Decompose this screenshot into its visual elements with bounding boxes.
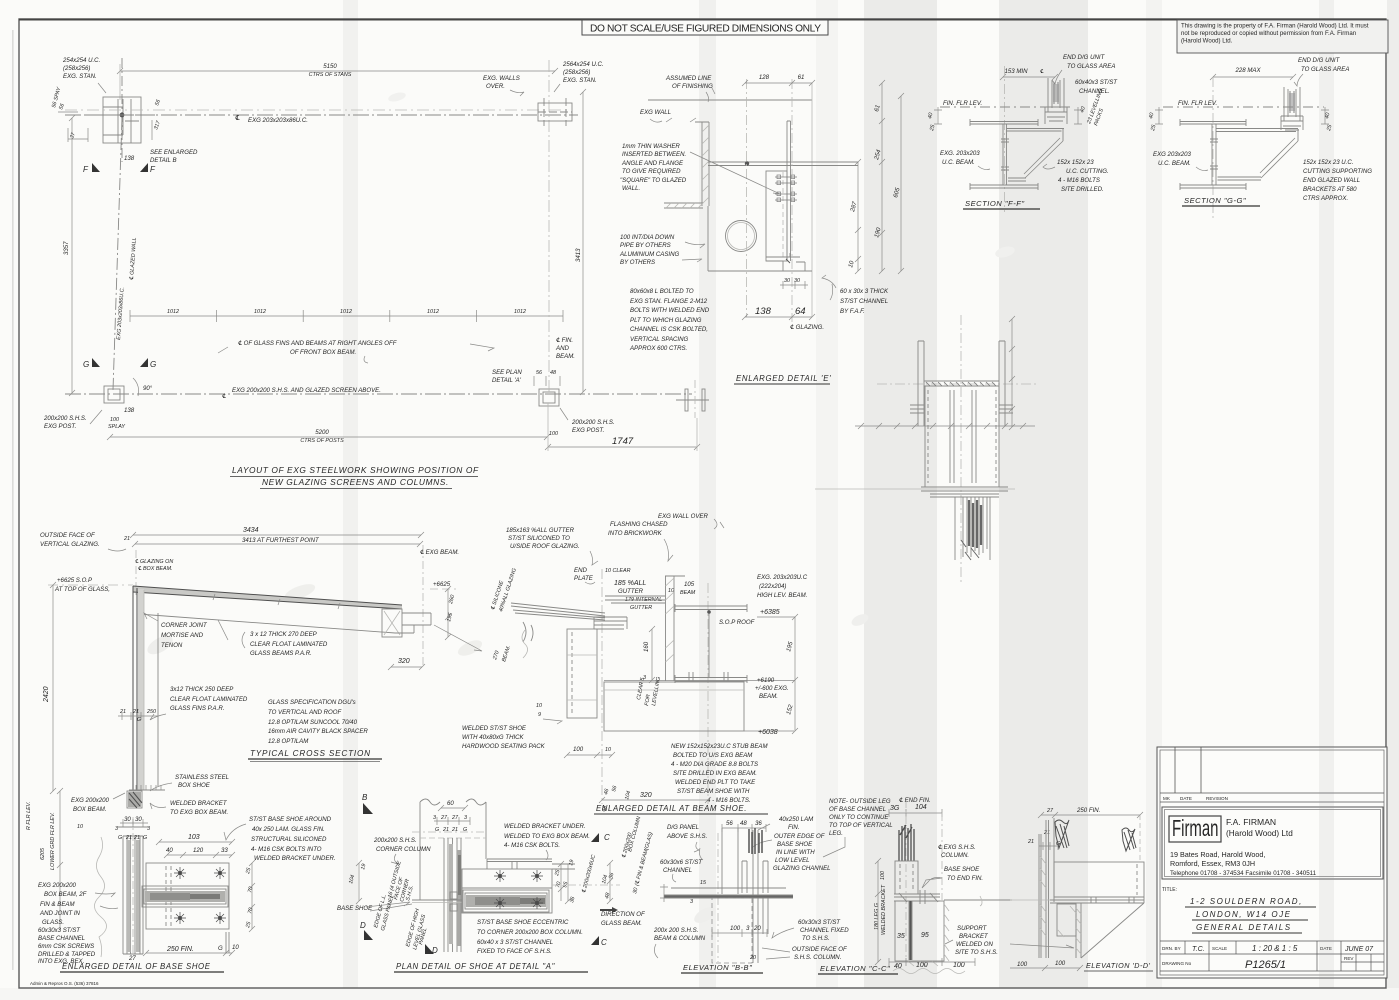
svg-text:21: 21	[1027, 839, 1034, 845]
svg-text:LOW LEVEL: LOW LEVEL	[775, 857, 810, 864]
svg-text:EXG. STAN.: EXG. STAN.	[563, 77, 597, 84]
svg-text:250 FIN.: 250 FIN.	[166, 946, 194, 953]
svg-text:℄ EXG S.H.S.: ℄ EXG S.H.S.	[938, 844, 976, 851]
svg-text:95: 95	[921, 932, 929, 939]
svg-text:10: 10	[77, 824, 83, 830]
svg-text:5200: 5200	[315, 429, 329, 436]
svg-text:SCALE: SCALE	[1212, 946, 1227, 951]
svg-text:100: 100	[573, 746, 584, 753]
svg-text:℄ BOX BEAM.: ℄ BOX BEAM.	[138, 566, 173, 572]
svg-text:20: 20	[749, 955, 756, 961]
svg-text:80x60x8 L BOLTED TO: 80x60x8 L BOLTED TO	[630, 288, 694, 295]
svg-text:ALUMINIUM CASING: ALUMINIUM CASING	[619, 251, 680, 258]
svg-text:AT TOP OF GLASS,: AT TOP OF GLASS,	[54, 586, 110, 593]
svg-text:SEE ENLARGED: SEE ENLARGED	[150, 149, 198, 156]
svg-text:CTRS APPROX.: CTRS APPROX.	[1303, 195, 1348, 202]
svg-text:+6190: +6190	[757, 677, 775, 684]
svg-text:100: 100	[916, 962, 928, 969]
svg-text:1012: 1012	[427, 309, 439, 315]
svg-text:SPLAY: SPLAY	[108, 424, 125, 430]
svg-text:ELEVATION 'D-D': ELEVATION 'D-D'	[1086, 961, 1151, 970]
svg-text:3x12 THICK 250 DEEP: 3x12 THICK 250 DEEP	[170, 686, 234, 693]
svg-text:VERTICAL SPACING: VERTICAL SPACING	[630, 336, 689, 343]
svg-text:152x 152x 23 U.C.: 152x 152x 23 U.C.	[1303, 159, 1353, 166]
svg-text:4 - M20 DIA GRADE 8.8 BOLTS: 4 - M20 DIA GRADE 8.8 BOLTS	[671, 761, 758, 768]
svg-text:WITH 40x80xG THICK: WITH 40x80xG THICK	[462, 734, 525, 741]
svg-text:10: 10	[536, 703, 542, 709]
svg-text:2564x254 U.C.: 2564x254 U.C.	[562, 61, 604, 68]
svg-text:PLAN DETAIL OF SHOE AT DE: PLAN DETAIL OF SHOE AT DETAIL "A"	[396, 962, 556, 971]
svg-text:3: 3	[433, 815, 436, 821]
svg-text:40x 250 LAM. GLASS FIN.: 40x 250 LAM. GLASS FIN.	[252, 826, 325, 833]
svg-text:GLASS SPECIFICATION DGU's: GLASS SPECIFICATION DGU's	[268, 699, 356, 706]
svg-text:DIRECTION OF: DIRECTION OF	[601, 911, 646, 918]
svg-text:+6625 S.O.P: +6625 S.O.P	[57, 577, 93, 584]
svg-text:3: 3	[147, 826, 150, 832]
svg-text:PLATE: PLATE	[574, 575, 594, 582]
svg-text:U.C. CUTTING.: U.C. CUTTING.	[1066, 168, 1109, 175]
svg-text:COLUMN.: COLUMN.	[941, 852, 969, 859]
svg-text:WELDED BRACKET: WELDED BRACKET	[170, 800, 228, 807]
svg-text:2420: 2420	[43, 686, 50, 703]
svg-text:BOLTED TO U/S EXG BEAM: BOLTED TO U/S EXG BEAM	[673, 752, 753, 759]
svg-text:CHANNEL IS CSK BOLTED,: CHANNEL IS CSK BOLTED,	[630, 326, 708, 333]
svg-text:LONDON, W14 OJE: LONDON, W14 OJE	[1196, 910, 1291, 919]
svg-text:℄: ℄	[1040, 69, 1044, 75]
svg-text:ANGLE AND FLANGE: ANGLE AND FLANGE	[621, 160, 684, 167]
svg-text:60: 60	[447, 800, 454, 807]
svg-text:CHANNEL FIXED: CHANNEL FIXED	[800, 927, 849, 934]
svg-text:27: 27	[1046, 808, 1054, 814]
svg-text:not be reproduced or copied wi: not be reproduced or copied without perm…	[1181, 30, 1356, 37]
svg-text:WELDED BRACKET: WELDED BRACKET	[881, 884, 887, 935]
svg-text:SITE DRILLED.: SITE DRILLED.	[1061, 186, 1104, 193]
svg-text:30: 30	[124, 816, 131, 823]
svg-text:100: 100	[880, 871, 886, 880]
svg-text:21: 21	[123, 536, 130, 542]
svg-text:TO EXG BOX BEAM.: TO EXG BOX BEAM.	[170, 809, 228, 816]
svg-text:60x30x6 ST/ST: 60x30x6 ST/ST	[660, 859, 703, 866]
svg-text:IN LINE WITH: IN LINE WITH	[776, 849, 815, 856]
svg-text:FLASHING CHASED: FLASHING CHASED	[610, 521, 668, 528]
svg-text:P1265/1: P1265/1	[1245, 959, 1286, 971]
svg-text:END: END	[574, 567, 587, 574]
svg-text:WELDED ON: WELDED ON	[956, 941, 994, 948]
svg-text:152x 152x 23: 152x 152x 23	[1057, 159, 1094, 166]
svg-text:OF FRONT BOX BEAM.: OF FRONT BOX BEAM.	[290, 349, 356, 356]
svg-text:TO VERTICAL AND ROOF: TO VERTICAL AND ROOF	[268, 709, 343, 716]
svg-text:12.8 OPTILAM: 12.8 OPTILAM	[268, 738, 309, 745]
svg-text:100: 100	[549, 431, 558, 437]
svg-text:GLASS.: GLASS.	[42, 919, 64, 926]
svg-text:138: 138	[124, 407, 135, 414]
svg-text:153 MIN: 153 MIN	[1004, 68, 1028, 75]
svg-text:21: 21	[442, 827, 449, 833]
svg-text:(Harold Wood) Ltd.: (Harold Wood) Ltd.	[1181, 38, 1233, 45]
svg-text:DETAIL B: DETAIL B	[150, 157, 177, 164]
svg-text:ABOVE S.H.S.: ABOVE S.H.S.	[666, 833, 707, 840]
svg-text:WELDED TO EXG BOX BEAM.: WELDED TO EXG BOX BEAM.	[504, 833, 590, 840]
svg-text:ELEVATION "B-B": ELEVATION "B-B"	[683, 963, 752, 972]
svg-text:1mm THIN WASHER: 1mm THIN WASHER	[622, 143, 680, 150]
svg-text:21: 21	[133, 835, 140, 841]
svg-text:MK: MK	[1163, 796, 1171, 801]
svg-text:BEAM: BEAM	[680, 590, 696, 596]
svg-text:S.O.P ROOF: S.O.P ROOF	[719, 619, 756, 626]
svg-text:C: C	[601, 938, 607, 947]
svg-text:60x40 x 3 ST/ST CHANNEL: 60x40 x 3 ST/ST CHANNEL	[477, 939, 553, 946]
svg-text:TO END FIN.: TO END FIN.	[947, 875, 983, 882]
svg-text:MORTISE AND: MORTISE AND	[161, 632, 204, 639]
svg-text:320: 320	[640, 792, 652, 799]
svg-text:WALL.: WALL.	[622, 185, 640, 192]
svg-text:APPROX 600 CTRS.: APPROX 600 CTRS.	[629, 345, 687, 352]
svg-text:FIXED TO FACE OF S.H.S.: FIXED TO FACE OF S.H.S.	[477, 948, 552, 955]
svg-text:TO TOP OF VERTICAL: TO TOP OF VERTICAL	[829, 822, 893, 829]
svg-text:33: 33	[221, 847, 228, 854]
svg-text:4 - M16 BOLTS.: 4 - M16 BOLTS.	[707, 797, 751, 804]
svg-text:BASE SHOE: BASE SHOE	[777, 841, 813, 848]
svg-text:ST/ST SILICONED TO: ST/ST SILICONED TO	[508, 535, 570, 542]
svg-text:ELEVATION "C-C": ELEVATION "C-C"	[820, 964, 890, 973]
svg-text:60 x 30x 3 THICK: 60 x 30x 3 THICK	[840, 288, 889, 295]
svg-text:TO GLASS AREA: TO GLASS AREA	[1067, 63, 1115, 70]
svg-text:DRILLED & TAPPED: DRILLED & TAPPED	[38, 951, 96, 958]
svg-text:21: 21	[132, 709, 139, 715]
svg-text:1 : 20 & 1 : 5: 1 : 20 & 1 : 5	[1252, 944, 1298, 953]
svg-text:℄: ℄	[222, 393, 226, 400]
svg-text:EXG POST.: EXG POST.	[44, 423, 76, 430]
svg-text:3G: 3G	[890, 805, 900, 812]
svg-text:BRACKETS AT 580: BRACKETS AT 580	[1303, 186, 1357, 193]
svg-text:64: 64	[795, 306, 806, 317]
svg-text:℄: ℄	[235, 114, 240, 122]
svg-text:EXG STAN. FLANGE 2-M12: EXG STAN. FLANGE 2-M12	[630, 298, 708, 305]
svg-text:+6385: +6385	[760, 609, 780, 616]
svg-text:ONLY TO CONTINUE: ONLY TO CONTINUE	[829, 814, 889, 821]
svg-text:FIN. FLR LEV.: FIN. FLR LEV.	[1178, 100, 1217, 107]
svg-text:SUPPORT: SUPPORT	[957, 925, 988, 932]
svg-text:128: 128	[759, 74, 770, 81]
svg-text:SECTION "F-F": SECTION "F-F"	[965, 199, 1025, 208]
svg-text:SEE PLAN: SEE PLAN	[492, 369, 522, 376]
svg-text:ST/ST CHANNEL: ST/ST CHANNEL	[840, 298, 888, 305]
svg-text:27: 27	[128, 955, 136, 962]
svg-text:BOLTS WITH WELDED END: BOLTS WITH WELDED END	[630, 307, 710, 314]
svg-text:1012: 1012	[514, 309, 526, 315]
svg-text:CLEAR FLOAT LAMINATED: CLEAR FLOAT LAMINATED	[170, 696, 248, 703]
svg-text:FIN. FLR LEV.: FIN. FLR LEV.	[943, 100, 982, 107]
svg-text:STAINLESS STEEL: STAINLESS STEEL	[175, 774, 229, 781]
svg-text:3 x 12 THICK 270 DEEP: 3 x 12 THICK 270 DEEP	[250, 631, 318, 638]
svg-text:100: 100	[1017, 961, 1028, 968]
svg-text:35: 35	[897, 933, 905, 940]
svg-text:DRN. BY: DRN. BY	[1162, 946, 1181, 951]
svg-text:STRUCTURAL SILICONED: STRUCTURAL SILICONED	[251, 836, 327, 843]
svg-text:HIGH LEV. BEAM.: HIGH LEV. BEAM.	[757, 592, 807, 599]
svg-text:GUTTER: GUTTER	[618, 588, 644, 595]
svg-text:℄ END FIN.: ℄ END FIN.	[899, 797, 931, 804]
svg-text:G: G	[150, 360, 156, 369]
svg-text:F.A. FIRMAN: F.A. FIRMAN	[1226, 817, 1276, 827]
svg-text:U.C. BEAM.: U.C. BEAM.	[942, 159, 975, 166]
svg-text:4- M16 CSK BOLTS.: 4- M16 CSK BOLTS.	[504, 842, 560, 849]
svg-text:SECTION "G-G": SECTION "G-G"	[1184, 196, 1246, 205]
svg-text:100 INT/DIA DOWN: 100 INT/DIA DOWN	[620, 234, 675, 241]
svg-text:1-2 SOULDERN ROAD,: 1-2 SOULDERN ROAD,	[1190, 897, 1303, 906]
svg-text:ST/ST BASE SHOE AROUND: ST/ST BASE SHOE AROUND	[249, 816, 332, 823]
svg-text:60x40x3 ST/ST: 60x40x3 ST/ST	[1075, 79, 1118, 86]
svg-text:3357: 3357	[63, 241, 70, 255]
svg-text:(Harold Wood) Ltd: (Harold Wood) Ltd	[1226, 829, 1293, 838]
svg-text:B: B	[362, 793, 368, 802]
svg-text:6205: 6205	[40, 847, 46, 860]
svg-text:10 CLEAR: 10 CLEAR	[605, 568, 631, 574]
svg-text:30: 30	[135, 816, 142, 823]
svg-text:ST/ST BASE SHOE ECCENTRIC: ST/ST BASE SHOE ECCENTRIC	[477, 919, 569, 926]
svg-text:OUTSIDE FACE OF: OUTSIDE FACE OF	[792, 946, 848, 953]
svg-text:21: 21	[119, 709, 126, 715]
svg-text:104: 104	[915, 804, 927, 811]
svg-text:"SQUARE" TO GLAZED: "SQUARE" TO GLAZED	[620, 177, 687, 184]
svg-text:48: 48	[550, 370, 556, 376]
svg-text:TO CORNER 200x200 BOX COLUMN.: TO CORNER 200x200 BOX COLUMN.	[477, 929, 583, 936]
svg-text:U.C. BEAM.: U.C. BEAM.	[1158, 160, 1191, 167]
svg-text:48: 48	[740, 820, 747, 827]
svg-text:FIN.: FIN.	[788, 824, 800, 831]
svg-text:D: D	[360, 921, 366, 930]
svg-text:103: 103	[188, 834, 200, 841]
svg-text:3: 3	[690, 899, 693, 905]
svg-text:D/G PANEL: D/G PANEL	[667, 824, 699, 831]
svg-text:250 FIN.: 250 FIN.	[1076, 807, 1100, 814]
svg-text:AND JOINT IN: AND JOINT IN	[39, 910, 81, 917]
svg-text:ENLARGED DETAIL AT BEAM SH: ENLARGED DETAIL AT BEAM SHOE.	[596, 804, 747, 813]
svg-text:U/SIDE ROOF GLAZING.: U/SIDE ROOF GLAZING.	[510, 543, 580, 550]
svg-text:℄ GLAZING ON: ℄ GLAZING ON	[135, 559, 173, 565]
svg-text:OUTER EDGE OF: OUTER EDGE OF	[774, 833, 826, 840]
svg-text:138: 138	[755, 306, 772, 317]
svg-text:105: 105	[684, 581, 695, 588]
svg-text:BY OTHERS: BY OTHERS	[620, 259, 655, 266]
svg-text:19 Bates Road, Harold Wood,: 19 Bates Road, Harold Wood,	[1170, 850, 1265, 859]
svg-text:(258x256): (258x256)	[563, 69, 590, 76]
svg-text:100: 100	[730, 925, 741, 932]
svg-text:100: 100	[1055, 960, 1066, 967]
svg-text:END D/G UNIT: END D/G UNIT	[1298, 57, 1341, 64]
svg-text:OF BASE CHANNEL: OF BASE CHANNEL	[829, 806, 886, 813]
svg-text:4- M16 CSK BOLTS INTO: 4- M16 CSK BOLTS INTO	[251, 846, 322, 853]
svg-text:EXG. STAN.: EXG. STAN.	[63, 73, 97, 80]
svg-text:NEW GLAZING SCREENS AND CO: NEW GLAZING SCREENS AND COLUMNS.	[262, 477, 449, 487]
svg-text:G: G	[143, 835, 147, 841]
svg-text:DATE: DATE	[1180, 796, 1192, 801]
svg-text:G: G	[83, 360, 89, 369]
svg-text:1012: 1012	[340, 309, 352, 315]
svg-text:+6625: +6625	[433, 581, 451, 588]
svg-text:30: 30	[784, 278, 790, 284]
svg-text:40x250 LAM: 40x250 LAM	[779, 816, 814, 823]
svg-text:TITLE:: TITLE:	[1162, 887, 1177, 893]
svg-text:END GLAZED WALL: END GLAZED WALL	[1303, 177, 1360, 184]
svg-text:100: 100	[953, 962, 965, 969]
svg-text:℄ OF GLASS FINS AND BEAMS: ℄ OF GLASS FINS AND BEAMS AT RIGHT ANGLE…	[238, 340, 398, 347]
svg-text:3434: 3434	[243, 527, 259, 534]
svg-text:EXG 200x200 S.H.S. AND GLAZED: EXG 200x200 S.H.S. AND GLAZED SCREEN ABO…	[232, 387, 381, 394]
svg-text:EXG WALL: EXG WALL	[640, 109, 671, 116]
svg-text:CTRS OF POSTS: CTRS OF POSTS	[300, 438, 344, 444]
svg-text:EXG POST.: EXG POST.	[572, 427, 604, 434]
svg-text:90°: 90°	[143, 385, 153, 392]
svg-text:EXG. WALLS: EXG. WALLS	[483, 75, 520, 82]
svg-text:LAYOUT OF EXG STEELWORK SH: LAYOUT OF EXG STEELWORK SHOWING POSITION…	[232, 465, 479, 475]
svg-text:ENLARGED DETAIL OF BASE SH: ENLARGED DETAIL OF BASE SHOE	[62, 962, 211, 971]
svg-text:6mm CSK SCREWS: 6mm CSK SCREWS	[38, 943, 94, 950]
svg-text:3: 3	[115, 826, 118, 832]
svg-text:Admin & Repros O.S. (536) 3781: Admin & Repros O.S. (536) 37816	[30, 981, 99, 986]
svg-text:T.C.: T.C.	[1192, 946, 1205, 953]
svg-text:WELDED END PLT TO TAKE: WELDED END PLT TO TAKE	[675, 779, 756, 786]
svg-text:G: G	[137, 717, 141, 723]
svg-text:WELDED BRACKET UNDER.: WELDED BRACKET UNDER.	[254, 855, 336, 862]
svg-text:S.H.S. COLUMN.: S.H.S. COLUMN.	[794, 954, 841, 961]
svg-text:BY F.A.F.: BY F.A.F.	[840, 308, 865, 315]
svg-text:BASE SHOE: BASE SHOE	[337, 905, 373, 912]
svg-text:R FLR LEV.: R FLR LEV.	[26, 801, 32, 830]
svg-text:BASE CHANNEL: BASE CHANNEL	[38, 935, 85, 942]
svg-text:BASE SHOE: BASE SHOE	[944, 866, 980, 873]
svg-text:AND: AND	[555, 345, 569, 352]
svg-text:185x163 %ALL GUTTER: 185x163 %ALL GUTTER	[506, 527, 575, 534]
svg-text:100: 100	[110, 417, 119, 423]
svg-text:15: 15	[700, 880, 707, 886]
svg-text:G: G	[118, 835, 122, 841]
svg-text:REVISION: REVISION	[1206, 796, 1228, 801]
svg-text:BOX BEAM, 2F: BOX BEAM, 2F	[44, 891, 88, 898]
svg-text:TO S.H.S.: TO S.H.S.	[802, 935, 830, 942]
svg-text:250: 250	[146, 709, 156, 715]
svg-text:DETAIL 'A': DETAIL 'A'	[492, 377, 522, 384]
svg-text:ENLARGED DETAIL 'E': ENLARGED DETAIL 'E'	[736, 374, 831, 383]
svg-text:NOTE- OUTSIDE LEG: NOTE- OUTSIDE LEG	[829, 798, 891, 805]
svg-text:This drawing is the property o: This drawing is the property of F.A. Fir…	[1181, 23, 1369, 30]
svg-text:10: 10	[605, 747, 611, 753]
svg-text:56: 56	[726, 820, 733, 827]
svg-text:21: 21	[451, 827, 458, 833]
svg-text:200x200 S.H.S.: 200x200 S.H.S.	[43, 415, 87, 422]
svg-text:254x254 U.C.: 254x254 U.C.	[62, 57, 100, 64]
svg-text:CHANNEL.: CHANNEL.	[1079, 88, 1110, 95]
svg-text:C: C	[604, 833, 610, 842]
svg-text:CUTTING SUPPORTING: CUTTING SUPPORTING	[1303, 168, 1372, 175]
svg-text:OVER.: OVER.	[486, 83, 505, 90]
svg-text:NEW 152x152x23U.C STUB BEAM: NEW 152x152x23U.C STUB BEAM	[671, 743, 768, 750]
svg-text:SITE DRILLED IN EXG BEAM.: SITE DRILLED IN EXG BEAM.	[673, 770, 757, 777]
svg-text:CTRS OF STANS: CTRS OF STANS	[309, 72, 352, 78]
svg-text:200x200 S.H.S.: 200x200 S.H.S.	[571, 419, 615, 426]
svg-text:36: 36	[755, 820, 762, 827]
svg-text:WELDED ST/ST SHOE: WELDED ST/ST SHOE	[462, 725, 527, 732]
svg-text:TO GLASS AREA: TO GLASS AREA	[1301, 66, 1349, 73]
svg-text:BOX SHOE: BOX SHOE	[178, 782, 211, 789]
svg-text:27: 27	[451, 815, 459, 821]
svg-text:Telephone 01708 - 374534 Facs: Telephone 01708 - 374534 Facsimile 01708…	[1170, 870, 1317, 877]
svg-text:TYPICAL CROSS SECTION: TYPICAL CROSS SECTION	[250, 749, 371, 758]
svg-text:200x200 S.H.S.: 200x200 S.H.S.	[373, 837, 417, 844]
svg-text:GLASS BEAMS P.A.R.: GLASS BEAMS P.A.R.	[250, 650, 312, 657]
svg-text:GUTTER: GUTTER	[630, 605, 652, 611]
svg-text:40: 40	[166, 847, 173, 854]
svg-text:1747: 1747	[612, 436, 634, 447]
svg-text:61: 61	[798, 74, 805, 81]
svg-text:10: 10	[232, 944, 239, 951]
svg-text:END D/G UNIT: END D/G UNIT	[1063, 54, 1106, 61]
svg-text:(222x204): (222x204)	[759, 583, 786, 590]
svg-text:TENON: TENON	[161, 642, 183, 649]
svg-text:60x30x3 ST/ST: 60x30x3 ST/ST	[798, 919, 841, 926]
svg-text:BEAM.: BEAM.	[556, 353, 575, 360]
svg-text:320: 320	[398, 658, 410, 665]
svg-text:BOX BEAM.: BOX BEAM.	[73, 806, 107, 813]
svg-text:CHANNEL: CHANNEL	[663, 867, 692, 874]
svg-text:BEAM & COLUMN: BEAM & COLUMN	[654, 935, 706, 942]
svg-text:SITE TO S.H.S.: SITE TO S.H.S.	[955, 949, 998, 956]
svg-text:1012: 1012	[254, 309, 266, 315]
svg-text:LOWER GRD FLR LEV.: LOWER GRD FLR LEV.	[50, 812, 56, 870]
svg-text:FIN & BEAM: FIN & BEAM	[40, 901, 75, 908]
svg-text:G: G	[463, 827, 467, 833]
svg-text:DRAWING No: DRAWING No	[1162, 961, 1192, 966]
svg-text:138: 138	[124, 155, 135, 162]
svg-text:VERTICAL GLAZING.: VERTICAL GLAZING.	[40, 541, 100, 548]
svg-text:INTO BRICKWORK: INTO BRICKWORK	[608, 530, 663, 537]
svg-text:INSERTED BETWEEN.: INSERTED BETWEEN.	[622, 151, 686, 158]
svg-text:GLAZING CHANNEL: GLAZING CHANNEL	[773, 865, 831, 872]
svg-text:OF FINISHING: OF FINISHING	[672, 83, 713, 90]
svg-text:60x30x3 ST/ST: 60x30x3 ST/ST	[38, 927, 81, 934]
svg-text:WELDED BRACKET UNDER.: WELDED BRACKET UNDER.	[504, 823, 586, 830]
svg-text:GENERAL DETAILS: GENERAL DETAILS	[1196, 923, 1292, 932]
svg-text:LEG.: LEG.	[829, 830, 843, 837]
svg-text:G: G	[435, 827, 439, 833]
svg-text:16mm AIR CAVITY BLACK SPACER: 16mm AIR CAVITY BLACK SPACER	[268, 728, 368, 735]
svg-text:BRACKET: BRACKET	[959, 933, 989, 940]
svg-text:℄ EXG BEAM.: ℄ EXG BEAM.	[420, 549, 459, 556]
svg-text:G: G	[218, 945, 223, 952]
svg-text:EXG 203x203: EXG 203x203	[1153, 151, 1192, 158]
svg-text:EXG 200x200: EXG 200x200	[71, 797, 110, 804]
svg-text:3: 3	[464, 815, 467, 821]
svg-text:+/-600 EXG.: +/-600 EXG.	[755, 685, 789, 692]
svg-text:PIPE BY OTHERS: PIPE BY OTHERS	[620, 242, 671, 249]
svg-text:20: 20	[753, 925, 761, 932]
svg-text:BEAM.: BEAM.	[759, 693, 778, 700]
svg-text:56: 56	[536, 370, 542, 376]
svg-text:3413: 3413	[575, 248, 582, 262]
svg-text:EXG. 203x203: EXG. 203x203	[940, 150, 980, 157]
svg-text:JUNE 07: JUNE 07	[1344, 946, 1374, 953]
svg-text:ASSUMED LINE: ASSUMED LINE	[665, 75, 712, 82]
svg-text:CORNER COLUMN: CORNER COLUMN	[376, 846, 431, 853]
svg-text:EXG. 203x203U.C: EXG. 203x203U.C	[757, 574, 808, 581]
svg-text:℄ GLAZING.: ℄ GLAZING.	[790, 324, 824, 331]
svg-text:180 LEG G: 180 LEG G	[874, 903, 880, 930]
svg-text:OUTSIDE FACE OF: OUTSIDE FACE OF	[40, 532, 96, 539]
svg-text:CORNER JOINT: CORNER JOINT	[161, 622, 208, 629]
svg-text:EXG WALL OVER: EXG WALL OVER	[658, 513, 708, 520]
svg-text:12.8 OPTILAM SUNCOOL 70/40: 12.8 OPTILAM SUNCOOL 70/40	[268, 719, 358, 726]
svg-text:HARDWOOD SEATING PACK: HARDWOOD SEATING PACK	[462, 743, 546, 750]
